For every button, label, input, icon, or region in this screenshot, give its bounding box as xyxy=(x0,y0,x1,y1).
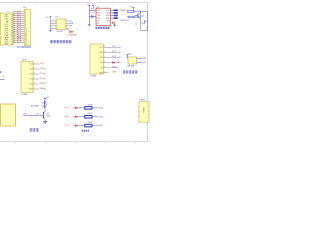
R2 value text xyxy=(88,113,93,115)
svg-text:39: 39 xyxy=(13,15,15,17)
svg-text:7: 7 xyxy=(65,23,66,25)
U2 left pin wires xyxy=(51,21,57,28)
svg-text:C2: C2 xyxy=(135,24,137,26)
label: serial memory circuit xyxy=(50,40,71,43)
U3 right pin wires xyxy=(110,10,113,18)
net label rst2 xyxy=(120,20,128,22)
net label WP xyxy=(69,26,73,28)
wire rst node xyxy=(134,11,148,12)
svg-text:5: 5 xyxy=(147,117,148,119)
transistor Q2 xyxy=(43,111,45,120)
ground GND U3 right xyxy=(113,24,116,26)
U2 left bus wire xyxy=(50,19,52,30)
J-USB pin marks xyxy=(147,105,148,119)
capacitor C-u3 xyxy=(89,15,96,18)
svg-text:3: 3 xyxy=(34,73,35,75)
U3 left rail xyxy=(88,8,90,24)
svg-text:D: D xyxy=(75,123,76,125)
svg-text:VCC: VCC xyxy=(143,62,148,64)
R1 value text xyxy=(88,104,93,106)
svg-text:D1N4148: D1N4148 xyxy=(68,34,76,36)
svg-text:IO3: IO3 xyxy=(30,79,33,81)
U1 right pin names xyxy=(11,14,13,45)
svg-text:8: 8 xyxy=(65,21,66,23)
svg-text:USB-B: USB-B xyxy=(142,107,144,114)
designator Q-rst text xyxy=(141,15,145,17)
net label sw2 xyxy=(143,62,148,64)
switch S1 body xyxy=(128,57,137,64)
sheet border right xyxy=(147,3,149,142)
IC U3 body xyxy=(96,8,110,25)
J-USB pin stubs xyxy=(137,106,139,116)
svg-text:39: 39 xyxy=(13,29,15,31)
svg-text:USB1: USB1 xyxy=(139,100,145,102)
U1-JP1 pin wires xyxy=(13,12,24,45)
P2 net labels xyxy=(112,46,121,73)
designator U2 xyxy=(55,17,59,19)
connector J-USB body xyxy=(139,102,149,122)
net label sw1 xyxy=(143,58,147,60)
connector JP1 body xyxy=(24,9,30,46)
LED D2 xyxy=(73,114,77,118)
R3 value text xyxy=(88,122,93,124)
wire R2-label xyxy=(92,116,98,118)
svg-text:SW-PB: SW-PB xyxy=(127,66,134,68)
P1 pin wires xyxy=(33,63,40,90)
svg-text:3V3: 3V3 xyxy=(106,20,109,22)
P2 label wires xyxy=(109,47,120,67)
svg-text:CON6: CON6 xyxy=(90,76,97,78)
sheet border top xyxy=(0,1,150,2)
net label VCC buz xyxy=(46,97,50,99)
svg-text:VCC: VCC xyxy=(40,63,45,65)
net label base xyxy=(23,114,28,116)
IC U2 body xyxy=(56,19,66,30)
net label LED3 left xyxy=(65,125,70,127)
svg-text:LED2: LED2 xyxy=(98,116,104,118)
module block body xyxy=(1,104,16,126)
svg-text:39: 39 xyxy=(13,12,15,14)
net label TXD xyxy=(90,12,94,14)
transistor Q-rst xyxy=(135,13,141,19)
designator P2 bottom xyxy=(90,76,97,78)
net label SCL xyxy=(69,21,73,23)
svg-text:VIN: VIN xyxy=(143,58,147,60)
net label buzzer xyxy=(31,105,40,107)
designator J-USB xyxy=(139,100,145,102)
net label RXD xyxy=(91,9,95,11)
svg-text:CON6: CON6 xyxy=(21,94,28,96)
connector P1 body xyxy=(21,62,33,93)
capacitor C-rst xyxy=(141,20,146,25)
P1 pin names xyxy=(29,64,34,91)
svg-text:39: 39 xyxy=(13,40,15,42)
label: buzzer circuit xyxy=(30,128,39,131)
resistor R3 xyxy=(85,124,92,127)
U3 left stub 1 xyxy=(89,9,96,11)
svg-text:IO2: IO2 xyxy=(30,74,33,76)
svg-text:39: 39 xyxy=(13,17,15,19)
net label under diode xyxy=(68,34,76,36)
svg-text:LED3: LED3 xyxy=(98,125,104,127)
svg-text:24C02: 24C02 xyxy=(56,31,63,33)
ground GND U3 left xyxy=(88,24,91,27)
svg-text:39: 39 xyxy=(13,33,15,35)
diode D-wp xyxy=(69,30,74,33)
wire LED2-R xyxy=(77,116,84,118)
J-USB inner text xyxy=(142,107,144,114)
svg-text:39: 39 xyxy=(13,23,15,25)
U1 left pin names xyxy=(4,15,9,46)
power VCC A xyxy=(87,4,91,8)
net label LED2 left xyxy=(65,116,70,118)
resistor R1 xyxy=(85,107,92,110)
U3 left pin names xyxy=(97,10,101,25)
svg-text:1: 1 xyxy=(34,63,35,65)
svg-text:IO4: IO4 xyxy=(30,84,33,86)
net label LED2 right xyxy=(98,116,104,118)
svg-text:39: 39 xyxy=(13,25,15,27)
net label VCC rst xyxy=(130,6,135,8)
net label VCC sw xyxy=(128,53,133,55)
U1-JP1 net labels xyxy=(17,11,22,44)
U3 right pin names xyxy=(106,10,111,22)
svg-text:GND: GND xyxy=(99,72,104,74)
U2 pin numbers xyxy=(57,21,66,30)
svg-text:5: 5 xyxy=(65,28,66,30)
svg-text:VCC: VCC xyxy=(112,46,117,48)
svg-text:18: 18 xyxy=(25,43,27,45)
svg-text:RESET: RESET xyxy=(120,10,127,12)
svg-text:LED: LED xyxy=(117,62,121,64)
wire R3-label xyxy=(92,125,98,127)
net label rst-in xyxy=(120,10,127,12)
net label LED3 right xyxy=(98,125,104,127)
svg-text:39: 39 xyxy=(13,37,15,39)
svg-text:VCC: VCC xyxy=(128,53,133,55)
wire buz-collector xyxy=(44,108,46,111)
wire LED1-R xyxy=(77,107,84,109)
svg-text:2: 2 xyxy=(34,68,35,70)
net label SDA xyxy=(69,22,74,25)
designator U3 xyxy=(96,7,98,9)
svg-text:GND: GND xyxy=(112,71,117,73)
net label LED1 left xyxy=(65,107,70,109)
component rst mid xyxy=(135,24,137,26)
power VCC U2 xyxy=(46,17,52,19)
svg-text:IO1: IO1 xyxy=(30,69,33,71)
svg-text:39: 39 xyxy=(13,35,15,37)
svg-text:4: 4 xyxy=(147,114,148,116)
svg-text:6: 6 xyxy=(34,88,35,90)
svg-text:BUZZER: BUZZER xyxy=(31,105,40,107)
sheet border bottom xyxy=(0,141,150,143)
svg-text:39: 39 xyxy=(13,39,15,41)
svg-text:2: 2 xyxy=(147,108,148,110)
svg-text:1: 1 xyxy=(57,21,58,23)
S1 wire 2 xyxy=(137,61,143,63)
svg-text:470R: 470R xyxy=(88,104,93,106)
label: serial comm circuit xyxy=(95,27,109,29)
S1 wire 1 xyxy=(137,57,143,59)
svg-text:1: 1 xyxy=(147,105,148,107)
svg-text:39: 39 xyxy=(13,31,15,33)
svg-text:39: 39 xyxy=(13,42,15,44)
wire R1-label xyxy=(92,107,98,109)
svg-text:D: D xyxy=(75,105,76,107)
svg-text:2: 2 xyxy=(57,23,58,25)
svg-text:470R: 470R xyxy=(88,122,93,124)
U2 part text 24C02 xyxy=(56,31,63,33)
wire rst right xyxy=(141,12,148,31)
U2 pin4 bend wire xyxy=(68,28,70,30)
P2 pin wires xyxy=(104,46,109,73)
wire Q2 base xyxy=(24,114,44,116)
svg-text:LED1: LED1 xyxy=(98,107,104,109)
net label P1 left xyxy=(0,71,6,79)
svg-text:3: 3 xyxy=(147,111,148,113)
ports P-serial xyxy=(114,9,118,19)
svg-text:9012: 9012 xyxy=(47,115,51,117)
svg-text:RST/P3.6: RST/P3.6 xyxy=(120,20,128,22)
label: LED circuit xyxy=(82,130,90,132)
resistor R-rst1 xyxy=(128,11,134,13)
svg-text:GND: GND xyxy=(29,89,34,91)
buzzer LS1 xyxy=(42,101,46,108)
svg-text:D: D xyxy=(75,114,76,116)
resistor R2 xyxy=(85,116,92,119)
svg-text:39: 39 xyxy=(13,21,15,23)
label: power switch xyxy=(123,71,138,74)
svg-text:STC89C52RC: STC89C52RC xyxy=(17,47,32,49)
svg-text:6: 6 xyxy=(65,26,66,28)
svg-text:39: 39 xyxy=(13,13,15,15)
power VCC buz xyxy=(44,98,46,101)
wire rst drop xyxy=(140,12,142,31)
P1 net labels xyxy=(40,63,47,91)
P2 pin names xyxy=(99,47,104,74)
designator P1 bottom xyxy=(21,94,28,96)
LED D3 xyxy=(73,123,77,127)
power VCC sw arrow xyxy=(126,55,128,59)
S1 part text xyxy=(127,66,134,68)
designator U1 STC89C52RC xyxy=(17,47,32,49)
resistor R-rst2 xyxy=(128,16,141,18)
svg-text:3: 3 xyxy=(57,26,58,28)
designator Q2 text xyxy=(47,113,51,117)
designator P1 top xyxy=(22,60,27,62)
svg-text:GND: GND xyxy=(4,43,9,45)
connector P2 body xyxy=(90,44,104,74)
svg-text:4: 4 xyxy=(57,28,58,30)
power VCC B xyxy=(92,4,96,9)
svg-text:39: 39 xyxy=(13,27,15,29)
U2 right pin wires xyxy=(66,21,69,28)
IC U1 body xyxy=(1,13,14,45)
svg-text:5: 5 xyxy=(34,83,35,85)
diode D-u3 xyxy=(112,21,114,24)
ground GND U2 xyxy=(49,30,52,32)
wire LED3-R xyxy=(77,125,84,127)
svg-text:39: 39 xyxy=(13,19,15,21)
ground GND Q2 xyxy=(43,120,47,124)
power stem rst xyxy=(133,8,135,12)
designator JP1 xyxy=(23,7,28,9)
svg-text:4: 4 xyxy=(34,78,35,80)
net label LED1 right xyxy=(98,107,104,109)
svg-text:470R: 470R xyxy=(88,113,93,115)
LED D1 xyxy=(73,105,77,109)
JP1 pin numbers xyxy=(25,11,27,46)
